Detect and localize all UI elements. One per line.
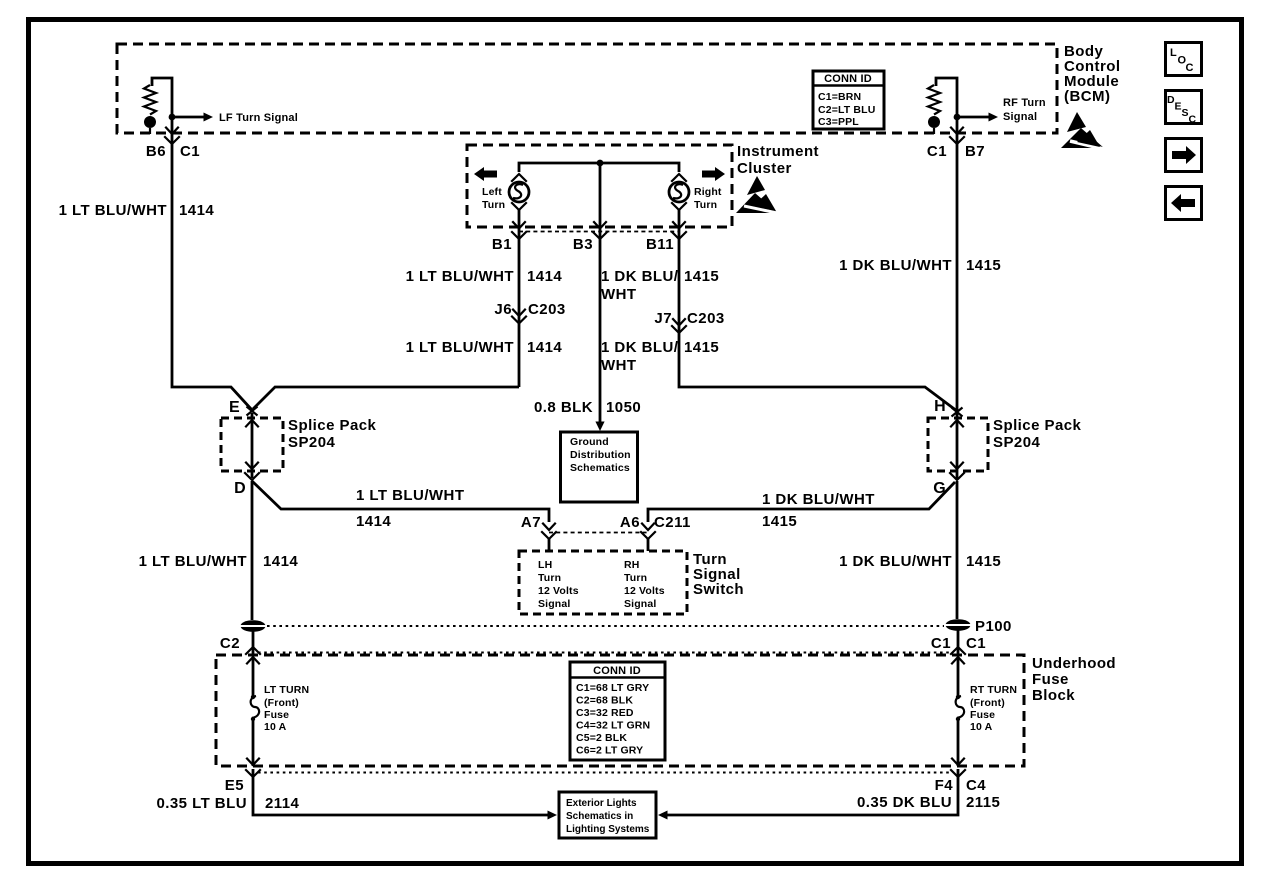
svg-text:L: L bbox=[1170, 47, 1177, 59]
svg-text:H: H bbox=[934, 398, 946, 415]
svg-text:1 DK BLU/: 1 DK BLU/ bbox=[601, 268, 679, 285]
svg-text:Turn: Turn bbox=[482, 199, 505, 211]
svg-text:E5: E5 bbox=[225, 777, 244, 794]
chevron above left lamp bbox=[512, 174, 526, 181]
arrow A7 bbox=[543, 524, 555, 531]
button DESC bbox=[1166, 91, 1202, 126]
svg-text:1415: 1415 bbox=[684, 339, 719, 356]
svg-text:C3=PPL: C3=PPL bbox=[818, 116, 859, 128]
ground distribution box bbox=[561, 432, 638, 502]
connector arrow B6 bbox=[166, 128, 178, 135]
fuse LT TURN bbox=[251, 695, 260, 721]
svg-text:C: C bbox=[1189, 114, 1197, 126]
node E bbox=[247, 407, 258, 416]
BCM logo bbox=[1061, 112, 1108, 150]
wire LF turn signal arrow bbox=[172, 113, 213, 122]
svg-text:(Front): (Front) bbox=[970, 697, 1005, 709]
wire B7 vertical bbox=[956, 117, 959, 411]
connector P100 pass-through bbox=[945, 619, 971, 631]
indicator blob left bbox=[144, 116, 156, 134]
resistor right BCM driver bbox=[928, 78, 957, 116]
svg-text:Turn: Turn bbox=[694, 199, 717, 211]
svg-text:12 Volts: 12 Volts bbox=[624, 585, 665, 597]
label Splice Pack SP204 right bbox=[993, 417, 1082, 451]
svg-text:Schematics in: Schematics in bbox=[566, 811, 633, 822]
wire D to A7 bbox=[252, 481, 549, 522]
label 0.35 LT BLU 2114 bbox=[156, 795, 299, 812]
instrument cluster box bbox=[467, 145, 732, 227]
label RF Turn Signal bbox=[1003, 97, 1046, 123]
splice pack SP204 right box bbox=[928, 418, 988, 471]
svg-text:A7: A7 bbox=[521, 514, 541, 531]
label 1 LT BLU/WHT 1414 diag bbox=[356, 487, 464, 530]
svg-text:10 A: 10 A bbox=[264, 721, 287, 733]
svg-text:C5=2 BLK: C5=2 BLK bbox=[576, 732, 627, 744]
label Underhood Fuse Block bbox=[1032, 655, 1116, 704]
svg-text:1 LT BLU/WHT: 1 LT BLU/WHT bbox=[406, 339, 514, 356]
label Turn Signal Switch bbox=[693, 551, 744, 598]
splice pack SP204 left box bbox=[221, 418, 283, 471]
connector arrow B7 bbox=[951, 128, 963, 135]
svg-text:2114: 2114 bbox=[265, 795, 300, 812]
svg-text:1 LT BLU/WHT: 1 LT BLU/WHT bbox=[406, 268, 514, 285]
label Left Turn bbox=[482, 186, 505, 211]
label LT TURN fuse bbox=[264, 684, 309, 733]
wire B3 drop bbox=[599, 163, 602, 425]
label 1 LT BLU/WHT 1414 left mid bbox=[139, 553, 299, 570]
wire B6 vertical bbox=[172, 117, 252, 410]
svg-text:1414: 1414 bbox=[263, 553, 298, 570]
svg-text:Instrument: Instrument bbox=[737, 143, 819, 160]
arrow A6 bbox=[642, 524, 654, 531]
svg-text:F4: F4 bbox=[935, 777, 954, 794]
svg-text:1 DK BLU/WHT: 1 DK BLU/WHT bbox=[839, 257, 952, 274]
svg-text:10 A: 10 A bbox=[970, 721, 993, 733]
svg-text:1415: 1415 bbox=[762, 513, 797, 530]
arrow E5 bbox=[247, 759, 259, 766]
svg-text:1 LT BLU/WHT: 1 LT BLU/WHT bbox=[59, 202, 167, 219]
svg-text:CONN ID: CONN ID bbox=[824, 73, 872, 85]
wire G down to P100 bbox=[956, 481, 959, 619]
svg-text:C2: C2 bbox=[220, 635, 240, 652]
chevron A6 bbox=[641, 532, 655, 539]
svg-text:B1: B1 bbox=[492, 236, 512, 253]
svg-text:SP204: SP204 bbox=[993, 434, 1040, 451]
svg-text:Lighting Systems: Lighting Systems bbox=[566, 824, 650, 835]
fine dashed connector line bottom bbox=[258, 772, 952, 774]
exterior lights box bbox=[559, 792, 656, 838]
svg-text:J6: J6 bbox=[494, 301, 512, 318]
cluster connector dashed line bbox=[519, 231, 679, 233]
svg-text:C203: C203 bbox=[528, 301, 566, 318]
indicator blob right bbox=[928, 116, 940, 134]
svg-text:1 DK BLU/WHT: 1 DK BLU/WHT bbox=[839, 553, 952, 570]
wire B1 drop bbox=[518, 210, 521, 387]
fine dashed connector line top bbox=[258, 652, 952, 654]
svg-text:B11: B11 bbox=[646, 236, 674, 253]
arrow up splice left bbox=[246, 420, 258, 427]
chevron E5 bbox=[246, 770, 260, 777]
label 1 DK BLU/WHT row2 bbox=[601, 339, 719, 374]
svg-text:Block: Block bbox=[1032, 687, 1075, 704]
svg-text:RT TURN: RT TURN bbox=[970, 684, 1017, 696]
dotted line C2 to P100 bbox=[267, 625, 944, 627]
underhood fuse block box bbox=[216, 655, 1024, 766]
svg-text:Turn: Turn bbox=[538, 572, 561, 584]
wire cluster bus bbox=[519, 163, 679, 172]
svg-text:C2=LT BLU: C2=LT BLU bbox=[818, 104, 875, 116]
svg-text:1415: 1415 bbox=[966, 553, 1001, 570]
wire P100 into fuse block bbox=[957, 630, 960, 655]
svg-text:D: D bbox=[234, 480, 246, 497]
svg-text:Distribution: Distribution bbox=[570, 449, 631, 461]
svg-text:1415: 1415 bbox=[684, 268, 719, 285]
svg-text:1050: 1050 bbox=[606, 399, 641, 416]
arrow F4 bbox=[952, 759, 964, 766]
label 0.35 DK BLU 2115 bbox=[857, 794, 1000, 811]
left arrow icon bbox=[474, 167, 497, 181]
svg-text:1415: 1415 bbox=[966, 257, 1001, 274]
svg-text:0.35 LT BLU: 0.35 LT BLU bbox=[156, 795, 247, 812]
label 1 LT BLU/WHT 1414 left top bbox=[59, 202, 215, 219]
connector J6 C203 bbox=[494, 301, 565, 324]
svg-text:1414: 1414 bbox=[527, 339, 562, 356]
svg-text:E: E bbox=[229, 399, 240, 416]
conn id table bottom bbox=[570, 662, 665, 760]
svg-text:C6=2 LT GRY: C6=2 LT GRY bbox=[576, 745, 643, 757]
svg-text:LF Turn Signal: LF Turn Signal bbox=[219, 112, 298, 124]
svg-text:C203: C203 bbox=[687, 310, 725, 327]
svg-text:Signal: Signal bbox=[624, 598, 656, 610]
arrow into ground box bbox=[595, 422, 604, 432]
svg-text:C3=32 RED: C3=32 RED bbox=[576, 707, 634, 719]
svg-text:Fuse: Fuse bbox=[264, 709, 289, 721]
arrow down splice right bbox=[951, 463, 963, 470]
svg-text:SP204: SP204 bbox=[288, 434, 335, 451]
svg-text:LT TURN: LT TURN bbox=[264, 684, 309, 696]
label 1 DK BLU/WHT 1415 right mid bbox=[839, 553, 1001, 570]
label 1 LT BLU/WHT 1414 row2 bbox=[406, 339, 563, 356]
svg-text:Left: Left bbox=[482, 186, 502, 198]
label 1 DK BLU/WHT row1 bbox=[601, 268, 719, 303]
svg-text:C1: C1 bbox=[931, 635, 951, 652]
button LOC bbox=[1166, 43, 1202, 76]
node junction right bbox=[954, 114, 961, 121]
wire C2 into fuse block bbox=[252, 631, 255, 655]
node D chevron bbox=[245, 473, 259, 480]
wire A7 into switch bbox=[548, 539, 551, 551]
svg-text:1 LT BLU/WHT: 1 LT BLU/WHT bbox=[139, 553, 247, 570]
chevron B3 bbox=[593, 232, 607, 239]
svg-text:Signal: Signal bbox=[1003, 111, 1037, 123]
svg-text:Turn: Turn bbox=[624, 572, 647, 584]
connector C211 dashed line bbox=[549, 532, 648, 534]
svg-text:WHT: WHT bbox=[601, 357, 637, 374]
chevron above right lamp bbox=[672, 174, 686, 181]
lamp right turn bbox=[669, 182, 689, 202]
svg-text:A6: A6 bbox=[620, 514, 640, 531]
wire below right fuse bbox=[957, 720, 960, 766]
svg-text:Fuse: Fuse bbox=[1032, 671, 1069, 688]
svg-text:2115: 2115 bbox=[966, 794, 1000, 811]
wire B11 drop bbox=[679, 210, 957, 411]
chevron C2 entry bbox=[246, 647, 260, 654]
fuse RT TURN bbox=[956, 695, 965, 721]
label Instrument Cluster bbox=[737, 143, 819, 177]
chevron B11 bbox=[672, 232, 686, 239]
svg-text:(BCM): (BCM) bbox=[1064, 88, 1110, 105]
svg-text:C211: C211 bbox=[654, 514, 691, 531]
button back arrow bbox=[1166, 187, 1202, 220]
wire D down to C2 bbox=[251, 481, 254, 620]
svg-text:B6: B6 bbox=[146, 143, 166, 160]
arrow C2 entry bbox=[247, 657, 259, 664]
lamp left turn bbox=[509, 182, 529, 202]
svg-text:12 Volts: 12 Volts bbox=[538, 585, 579, 597]
node H X bbox=[952, 408, 963, 417]
wire below left fuse bbox=[252, 720, 255, 766]
wire to left fuse bbox=[252, 658, 255, 697]
wire through splice left bbox=[251, 413, 254, 478]
connector J7 C203 bbox=[654, 310, 724, 333]
svg-text:Ground: Ground bbox=[570, 436, 609, 448]
cluster logo bbox=[736, 176, 782, 214]
svg-text:P100: P100 bbox=[975, 618, 1012, 635]
chevron below left lamp bbox=[512, 203, 526, 210]
chevron A7 bbox=[542, 532, 556, 539]
svg-text:C2=68 BLK: C2=68 BLK bbox=[576, 695, 633, 707]
label 1 LT BLU/WHT 1414 row1 bbox=[406, 268, 563, 285]
svg-text:S: S bbox=[1182, 107, 1189, 119]
conn id table C1 bbox=[813, 71, 884, 129]
svg-text:0.35 DK BLU: 0.35 DK BLU bbox=[857, 794, 952, 811]
svg-text:C1: C1 bbox=[927, 143, 947, 160]
connector C2 pass-through bbox=[240, 620, 266, 632]
svg-text:1414: 1414 bbox=[527, 268, 562, 285]
resistor left BCM driver bbox=[144, 78, 172, 116]
svg-text:RH: RH bbox=[624, 559, 639, 571]
wire to right fuse bbox=[957, 658, 960, 697]
chevron below right lamp bbox=[672, 203, 686, 210]
svg-text:1414: 1414 bbox=[179, 202, 214, 219]
connector chevron B6 bbox=[165, 137, 179, 144]
turn signal switch box bbox=[519, 551, 687, 614]
svg-text:1 DK BLU/: 1 DK BLU/ bbox=[601, 339, 679, 356]
label Right Turn bbox=[694, 186, 722, 211]
wire right horizontal into E bbox=[253, 387, 519, 409]
label 1 DK BLU/WHT 1415 right top bbox=[839, 257, 1001, 274]
svg-text:WHT: WHT bbox=[601, 286, 637, 303]
label LH Turn 12 Volts Signal bbox=[538, 559, 579, 610]
chevron C1 entry bbox=[951, 647, 965, 654]
wire through splice right bbox=[956, 413, 959, 479]
label 0.8 BLK 1050 bbox=[534, 399, 641, 416]
label Splice Pack SP204 left bbox=[288, 417, 377, 451]
svg-text:J7: J7 bbox=[654, 310, 672, 327]
svg-text:Schematics: Schematics bbox=[570, 462, 630, 474]
connector chevron B7 bbox=[950, 137, 964, 144]
svg-text:RF Turn: RF Turn bbox=[1003, 97, 1046, 109]
svg-text:Cluster: Cluster bbox=[737, 160, 792, 177]
svg-text:(Front): (Front) bbox=[264, 697, 299, 709]
svg-text:Switch: Switch bbox=[693, 581, 744, 598]
chevron B1 bbox=[512, 232, 526, 239]
wire G to A6 bbox=[648, 482, 955, 522]
svg-text:Underhood: Underhood bbox=[1032, 655, 1116, 672]
label Body Control Module (BCM) bbox=[1064, 43, 1120, 105]
label RH Turn 12 Volts Signal bbox=[624, 559, 665, 610]
svg-text:C1=68 LT GRY: C1=68 LT GRY bbox=[576, 682, 649, 694]
button next arrow bbox=[1166, 139, 1202, 172]
arrow up splice right bbox=[951, 420, 963, 427]
arrow into exterior box left bbox=[548, 811, 558, 820]
right arrow icon bbox=[702, 167, 725, 181]
svg-text:1414: 1414 bbox=[356, 513, 391, 530]
label RT TURN fuse bbox=[970, 684, 1017, 733]
svg-text:Splice Pack: Splice Pack bbox=[288, 417, 377, 434]
arrow into exterior box right bbox=[658, 811, 668, 820]
svg-text:C1: C1 bbox=[966, 635, 986, 652]
svg-text:C4: C4 bbox=[966, 777, 986, 794]
label 1 DK BLU/WHT 1415 diag bbox=[762, 491, 875, 530]
svg-text:0.8 BLK: 0.8 BLK bbox=[534, 399, 593, 416]
svg-text:Right: Right bbox=[694, 186, 722, 198]
wire F4 to exterior lights bbox=[667, 769, 958, 815]
svg-text:Fuse: Fuse bbox=[970, 709, 995, 721]
BCM box (Body Control Module dashed outline) bbox=[117, 44, 1057, 133]
svg-text:C1=BRN: C1=BRN bbox=[818, 91, 861, 103]
arrow B11 bbox=[673, 222, 685, 229]
svg-text:Splice Pack: Splice Pack bbox=[993, 417, 1082, 434]
svg-text:Exterior Lights: Exterior Lights bbox=[566, 798, 637, 809]
svg-text:LH: LH bbox=[538, 559, 552, 571]
wire RF turn signal arrow bbox=[957, 113, 998, 122]
wire E5 to exterior lights bbox=[253, 769, 548, 815]
svg-text:C4=32 LT GRN: C4=32 LT GRN bbox=[576, 720, 650, 732]
svg-text:CONN ID: CONN ID bbox=[593, 665, 641, 677]
arrow down splice left bbox=[246, 463, 258, 470]
svg-text:C: C bbox=[1186, 62, 1194, 74]
svg-text:B7: B7 bbox=[965, 143, 985, 160]
svg-text:1 LT BLU/WHT: 1 LT BLU/WHT bbox=[356, 487, 464, 504]
arrow B1 bbox=[513, 222, 525, 229]
node junction left bbox=[169, 114, 176, 121]
svg-text:C1: C1 bbox=[180, 143, 200, 160]
svg-text:Signal: Signal bbox=[538, 598, 570, 610]
arrow B3 bbox=[594, 222, 606, 229]
node G chevron bbox=[950, 473, 964, 480]
svg-text:1 DK BLU/WHT: 1 DK BLU/WHT bbox=[762, 491, 875, 508]
chevron F4 bbox=[951, 770, 965, 777]
junction dot bus bbox=[597, 160, 604, 167]
svg-text:E: E bbox=[1175, 101, 1182, 113]
svg-text:B3: B3 bbox=[573, 236, 593, 253]
wire A6 into switch bbox=[647, 539, 650, 551]
arrow C1 entry bbox=[952, 657, 964, 664]
